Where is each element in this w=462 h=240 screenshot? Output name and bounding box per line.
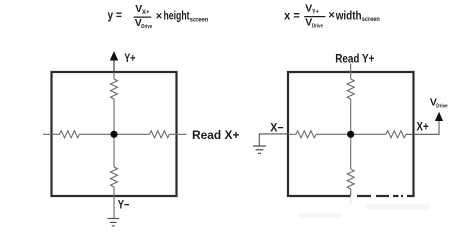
- wire left stub: [43, 133, 60, 135]
- svg-text:Y+: Y+: [124, 51, 135, 65]
- svg-text:Read Y+: Read Y+: [335, 51, 374, 65]
- resistor bottom (left panel): [111, 167, 118, 187]
- touchscreen panel box (left): [52, 72, 177, 196]
- svg-text:Drive: Drive: [312, 23, 323, 29]
- svg-text:×: ×: [328, 10, 334, 22]
- ground (right circuit, X-): [253, 146, 266, 153]
- resistor bottom (right panel): [347, 169, 354, 189]
- svg-text:Drive: Drive: [141, 24, 153, 30]
- resistor left (right panel): [296, 131, 316, 138]
- wire to center: [80, 133, 115, 135]
- wire top stub: [350, 64, 352, 79]
- wire to center: [316, 133, 351, 135]
- wire Y- down to ground: [113, 196, 115, 219]
- wire top: [113, 72, 115, 79]
- wire to center: [350, 99, 352, 134]
- svg-text:height: height: [164, 11, 190, 23]
- junction node (right): [347, 131, 354, 138]
- faint watermark remnants: [298, 204, 430, 218]
- wire center to right resistor: [114, 133, 150, 135]
- resistor left (left panel): [60, 131, 80, 138]
- svg-text:y =: y =: [108, 8, 122, 22]
- bottom edge with watermark gaps: [287, 195, 415, 197]
- svg-text:screen: screen: [362, 17, 380, 23]
- faint wire remnant below right box: [350, 196, 352, 204]
- wire left edge to resistor: [288, 133, 296, 135]
- svg-text:x =: x =: [284, 8, 300, 22]
- Vdrive arrow: [435, 112, 443, 121]
- svg-text:Y−: Y−: [118, 198, 130, 212]
- svg-text:Drive: Drive: [436, 103, 448, 109]
- svg-text:Read X+: Read X+: [192, 128, 240, 142]
- ground (left): [108, 219, 120, 226]
- formula y = Vx+/Vdrive x height_screen: [108, 3, 209, 30]
- resistor top (left panel): [111, 79, 118, 99]
- svg-text:X−: X−: [270, 120, 283, 134]
- wire center to right resistor: [351, 133, 386, 135]
- resistor right (left panel): [150, 131, 170, 138]
- wire to bottom edge: [113, 187, 115, 196]
- wire center down: [350, 134, 352, 169]
- X- wire out left: [259, 134, 288, 146]
- formula x = Vy+/Vdrive x width_screen: [284, 2, 380, 29]
- resistor top (right panel): [347, 79, 354, 99]
- svg-text:×: ×: [156, 10, 162, 22]
- junction node (left): [110, 131, 117, 138]
- wire to bottom edge: [350, 189, 352, 196]
- svg-text:X+: X+: [416, 120, 428, 134]
- wire out right: [170, 133, 187, 135]
- wire to center: [113, 99, 115, 134]
- wire out right to Vdrive elbow: [406, 121, 439, 135]
- touchscreen panel box (right): top,left,right edges solid: [288, 72, 414, 196]
- svg-text:screen: screen: [190, 18, 209, 24]
- resistor right (right panel): [386, 131, 406, 138]
- Y+ drive arrow: [110, 51, 118, 72]
- svg-text:X+: X+: [142, 10, 150, 16]
- wire center down: [113, 134, 115, 167]
- svg-text:width: width: [335, 11, 362, 23]
- svg-text:Y+: Y+: [312, 9, 319, 15]
